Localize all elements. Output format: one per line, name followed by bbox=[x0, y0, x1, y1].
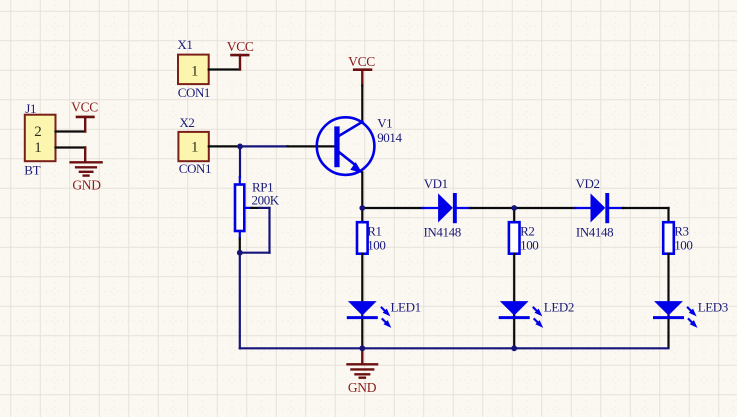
svg-text:CON1: CON1 bbox=[178, 85, 210, 100]
svg-text:IN4148: IN4148 bbox=[576, 224, 613, 239]
svg-text:100: 100 bbox=[520, 238, 538, 253]
svg-text:9014: 9014 bbox=[377, 130, 402, 145]
svg-text:LED2: LED2 bbox=[544, 300, 574, 315]
svg-text:100: 100 bbox=[674, 238, 692, 253]
svg-text:R1: R1 bbox=[367, 223, 381, 238]
svg-text:VD2: VD2 bbox=[576, 176, 600, 191]
svg-text:R3: R3 bbox=[674, 223, 688, 238]
svg-text:2: 2 bbox=[34, 124, 42, 140]
svg-text:X2: X2 bbox=[179, 115, 194, 130]
svg-text:GND: GND bbox=[72, 177, 101, 192]
svg-text:VD1: VD1 bbox=[424, 176, 448, 191]
svg-text:IN4148: IN4148 bbox=[424, 224, 461, 239]
svg-text:200K: 200K bbox=[252, 192, 280, 207]
svg-text:X1: X1 bbox=[177, 37, 192, 52]
svg-text:100: 100 bbox=[367, 238, 385, 253]
svg-text:VCC: VCC bbox=[71, 99, 98, 114]
svg-text:1: 1 bbox=[191, 140, 199, 156]
svg-text:LED1: LED1 bbox=[391, 300, 421, 315]
svg-text:BT: BT bbox=[24, 162, 40, 177]
svg-text:LED3: LED3 bbox=[698, 300, 728, 315]
svg-text:V1: V1 bbox=[377, 116, 392, 131]
svg-text:VCC: VCC bbox=[348, 54, 375, 69]
svg-text:1: 1 bbox=[191, 64, 199, 80]
svg-text:1: 1 bbox=[34, 140, 42, 156]
svg-text:CON1: CON1 bbox=[179, 161, 211, 176]
svg-text:GND: GND bbox=[348, 380, 377, 395]
svg-text:J1: J1 bbox=[25, 101, 36, 116]
svg-text:VCC: VCC bbox=[227, 39, 254, 54]
svg-text:R2: R2 bbox=[520, 223, 534, 238]
